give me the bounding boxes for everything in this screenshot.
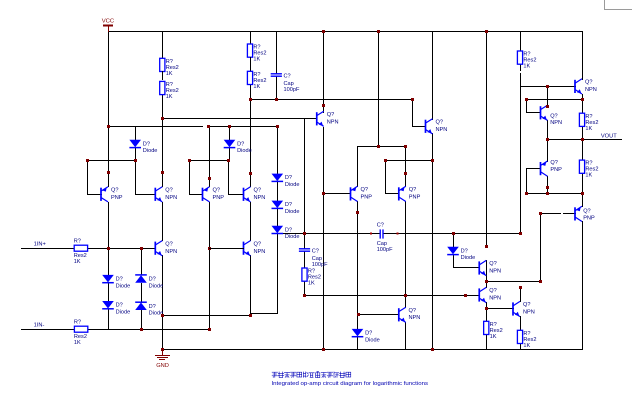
svg-text:Q?: Q? <box>361 187 368 193</box>
svg-text:D?: D? <box>285 175 292 181</box>
svg-text:NPN: NPN <box>165 249 177 255</box>
svg-text:1K: 1K <box>585 126 592 132</box>
svg-text:VCC: VCC <box>102 19 115 25</box>
svg-text:NPN: NPN <box>254 195 266 201</box>
svg-text:Q?: Q? <box>489 261 496 267</box>
svg-text:D?: D? <box>149 276 156 282</box>
svg-text:D?: D? <box>149 304 156 310</box>
svg-text:Q?: Q? <box>409 308 416 314</box>
svg-text:GND: GND <box>156 363 169 369</box>
svg-text:D?: D? <box>285 202 292 208</box>
svg-text:D?: D? <box>143 141 150 147</box>
svg-text:Diode: Diode <box>285 209 300 215</box>
svg-text:Cap: Cap <box>377 241 387 247</box>
svg-text:Q?: Q? <box>165 187 172 193</box>
svg-text:C?: C? <box>312 249 319 255</box>
svg-text:C?: C? <box>284 74 291 80</box>
svg-text:Q?: Q? <box>111 187 118 193</box>
svg-text:Integrated op-amp circuit diag: Integrated op-amp circuit diagram for lo… <box>272 381 429 387</box>
svg-text:Diode: Diode <box>237 148 252 154</box>
svg-text:1K: 1K <box>253 57 260 63</box>
svg-text:PNP: PNP <box>361 194 373 200</box>
svg-text:1K: 1K <box>74 259 81 265</box>
svg-text:NPN: NPN <box>585 87 597 93</box>
svg-text:Q?: Q? <box>213 187 220 193</box>
svg-text:Diode: Diode <box>365 337 380 343</box>
svg-text:D?: D? <box>116 276 123 282</box>
svg-text:D?: D? <box>285 227 292 233</box>
svg-text:NPN: NPN <box>409 315 421 321</box>
svg-text:PNP: PNP <box>409 194 421 200</box>
svg-text:Q?: Q? <box>327 112 334 118</box>
svg-text:R?: R? <box>74 238 81 244</box>
svg-text:Diode: Diode <box>461 255 476 261</box>
svg-text:100pF: 100pF <box>312 262 328 268</box>
svg-text:1K: 1K <box>585 173 592 179</box>
svg-text:1K: 1K <box>166 71 173 77</box>
svg-text:PNP: PNP <box>550 167 562 173</box>
svg-text:Q?: Q? <box>523 302 530 308</box>
svg-text:Diode: Diode <box>116 283 131 289</box>
svg-text:1K: 1K <box>308 281 315 287</box>
svg-text:Q?: Q? <box>409 187 416 193</box>
svg-text:Q?: Q? <box>489 288 496 294</box>
svg-text:NPN: NPN <box>436 127 448 133</box>
svg-text:NPN: NPN <box>327 119 339 125</box>
svg-text:NPN: NPN <box>523 310 535 316</box>
svg-text:NPN: NPN <box>254 249 266 255</box>
svg-text:Diode: Diode <box>285 182 300 188</box>
svg-text:Diode: Diode <box>149 283 164 289</box>
svg-text:VOUT: VOUT <box>601 133 617 139</box>
svg-text:Q?: Q? <box>550 113 557 119</box>
svg-text:1K: 1K <box>490 334 497 340</box>
svg-text:Diode: Diode <box>143 148 158 154</box>
svg-text:Diode: Diode <box>116 309 131 315</box>
svg-text:Q?: Q? <box>550 160 557 166</box>
svg-text:PNP: PNP <box>111 195 123 201</box>
svg-text:NPN: NPN <box>489 269 501 275</box>
svg-text:1K: 1K <box>74 340 81 346</box>
svg-text:1IN+: 1IN+ <box>34 242 47 248</box>
svg-text:C?: C? <box>377 222 384 228</box>
svg-text:D?: D? <box>365 330 372 336</box>
svg-text:Q?: Q? <box>585 80 592 86</box>
svg-text:1K: 1K <box>166 94 173 100</box>
svg-text:Q?: Q? <box>583 209 590 215</box>
svg-text:Q?: Q? <box>436 119 443 125</box>
svg-text:Diode: Diode <box>285 234 300 240</box>
svg-text:D?: D? <box>237 141 244 147</box>
svg-text:NPN: NPN <box>165 195 177 201</box>
svg-text:PNP: PNP <box>213 195 225 201</box>
svg-text:D?: D? <box>461 248 468 254</box>
svg-text:Cap: Cap <box>284 81 294 87</box>
svg-text:Q?: Q? <box>165 241 172 247</box>
svg-text:NPN: NPN <box>550 120 562 126</box>
svg-text:D?: D? <box>116 303 123 309</box>
svg-text:PNP: PNP <box>583 216 595 222</box>
svg-text:1K: 1K <box>523 64 530 70</box>
svg-text:Q?: Q? <box>254 187 261 193</box>
svg-text:Cap: Cap <box>312 256 322 262</box>
svg-text:1K: 1K <box>523 343 530 349</box>
svg-text:100pF: 100pF <box>377 247 393 253</box>
svg-text:1K: 1K <box>253 84 260 90</box>
svg-text:1IN-: 1IN- <box>34 323 45 329</box>
svg-text:NPN: NPN <box>489 296 501 302</box>
svg-text:R?: R? <box>74 319 81 325</box>
svg-text:100pF: 100pF <box>284 87 300 93</box>
svg-text:Q?: Q? <box>254 241 261 247</box>
